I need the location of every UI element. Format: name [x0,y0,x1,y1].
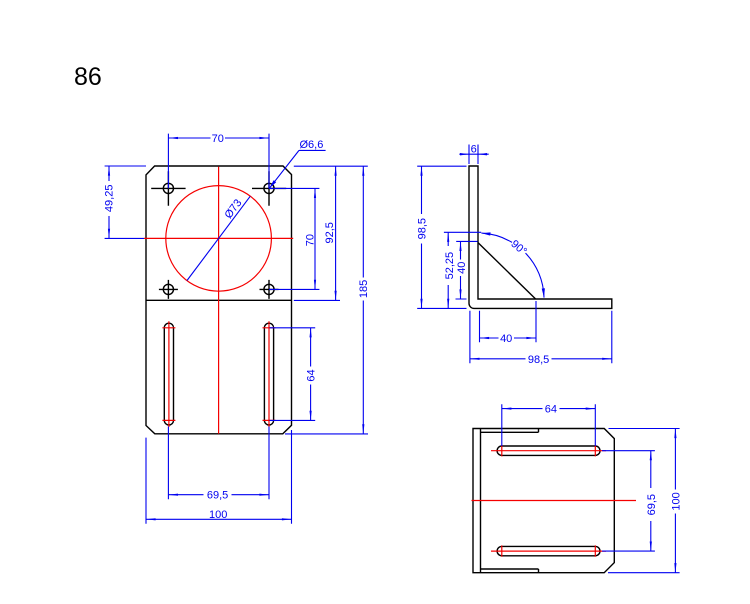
hole top-left [163,183,173,193]
svg-text:40: 40 [456,262,468,274]
slot left outline [164,323,173,425]
bottom view slot top outline [497,446,600,455]
dim 40 vertical line [460,241,462,259]
dim 64 right extension lines [270,328,316,421]
svg-text:69,5: 69,5 [207,490,228,502]
front view bend line [146,299,292,301]
svg-text:40: 40 [500,333,512,345]
bottom view slot bottom centerline red [491,545,606,556]
pilot circle dia 73 red [166,186,272,292]
angle dim 90 arc [481,233,512,242]
dim 70 right extension lines [269,188,319,289]
dim 185 line [362,166,364,277]
svg-text:Ø6,6: Ø6,6 [300,139,324,151]
svg-text:86: 86 [74,63,102,91]
dim 70 top extension lines [168,134,269,189]
dim 98,5 bottom extension lines [470,311,612,363]
dim 100 line [146,518,292,520]
hole bottom-left crosshair [159,280,178,299]
side view gusset diagonal [478,243,536,299]
hole bottom-right [264,284,274,294]
svg-text:98,5: 98,5 [417,218,429,239]
dim 6 extension lines [469,145,478,165]
dim 92,5 line [335,166,337,300]
dim 52,25 extension line [444,231,481,233]
svg-text:70: 70 [305,234,317,246]
dim 70 right line [314,188,316,289]
dim 69,5 bottom view line [650,451,652,488]
bottom view gusset bottom edge [481,569,539,573]
dim 64 bottom view extension lines [502,404,596,446]
svg-text:64: 64 [545,404,557,416]
dim 49,25 extension lines [105,166,146,238]
dim 6 line [459,153,488,155]
dim 98,5 bottom line [470,358,526,360]
slot right outline [264,323,273,425]
svg-text:100: 100 [209,509,227,521]
front view vertical centerline red [218,167,220,434]
bottom view main centerline red [472,500,637,502]
svg-text:49,25: 49,25 [104,185,116,213]
front view plate outline [146,166,292,434]
dim 40 vertical extension lines [456,241,478,299]
svg-text:64: 64 [305,369,317,381]
svg-text:185: 185 [358,280,370,298]
hole top-right [264,183,274,193]
bottom view leg edge line [480,429,482,573]
dia 73 label line [187,196,250,280]
svg-text:98,5: 98,5 [528,354,549,366]
dim 98,5 left extension lines [417,166,466,308]
slot right centerline red [263,321,276,427]
svg-text:90°: 90° [508,238,528,258]
svg-text:92,5: 92,5 [324,222,336,243]
side view L-bracket outline [469,166,612,308]
svg-text:6: 6 [471,144,477,156]
hole bottom-right crosshair [260,280,279,299]
svg-text:69,5: 69,5 [646,494,658,515]
dim 64 bottom view line [502,408,543,410]
dim 69,5 line [168,494,203,496]
bottom view slot bottom outline [497,546,600,555]
hole top-right crosshair [252,171,286,206]
dim 40 bottom line [480,337,499,339]
dim 52,25 line [447,232,449,246]
dim 98,5 left line [421,166,423,214]
front view horizontal centerline red [144,237,293,239]
dim 40 bottom extension lines [480,301,537,342]
dia 73 label text [222,197,244,221]
leader dia 6,6 [269,150,325,188]
dim 70 top line [168,137,210,139]
hole top-left crosshair [151,171,185,206]
dim 69,5 extension lines [168,427,269,500]
svg-text:70: 70 [212,133,224,145]
dim 64 right line [310,328,312,367]
angle dim 90 text [508,238,528,258]
dim 92,5 extension lines [294,166,368,300]
dim 49,25 line [108,166,110,181]
bottom view slot top centerline red [491,445,606,456]
dim 100 extension lines [146,430,292,524]
dim 100 bottom view line [674,429,676,490]
bottom view plate outline [473,429,614,573]
hole bottom-left [163,284,173,294]
slot left centerline red [162,321,175,427]
dim 100 bottom view extension lines [608,429,680,573]
dim 69,5 bottom view extension lines [602,451,655,551]
svg-text:100: 100 [670,492,682,510]
svg-text:52,25: 52,25 [444,252,456,280]
dim 185 extension line bottom [285,433,368,435]
bottom view gusset top edge [481,429,539,433]
